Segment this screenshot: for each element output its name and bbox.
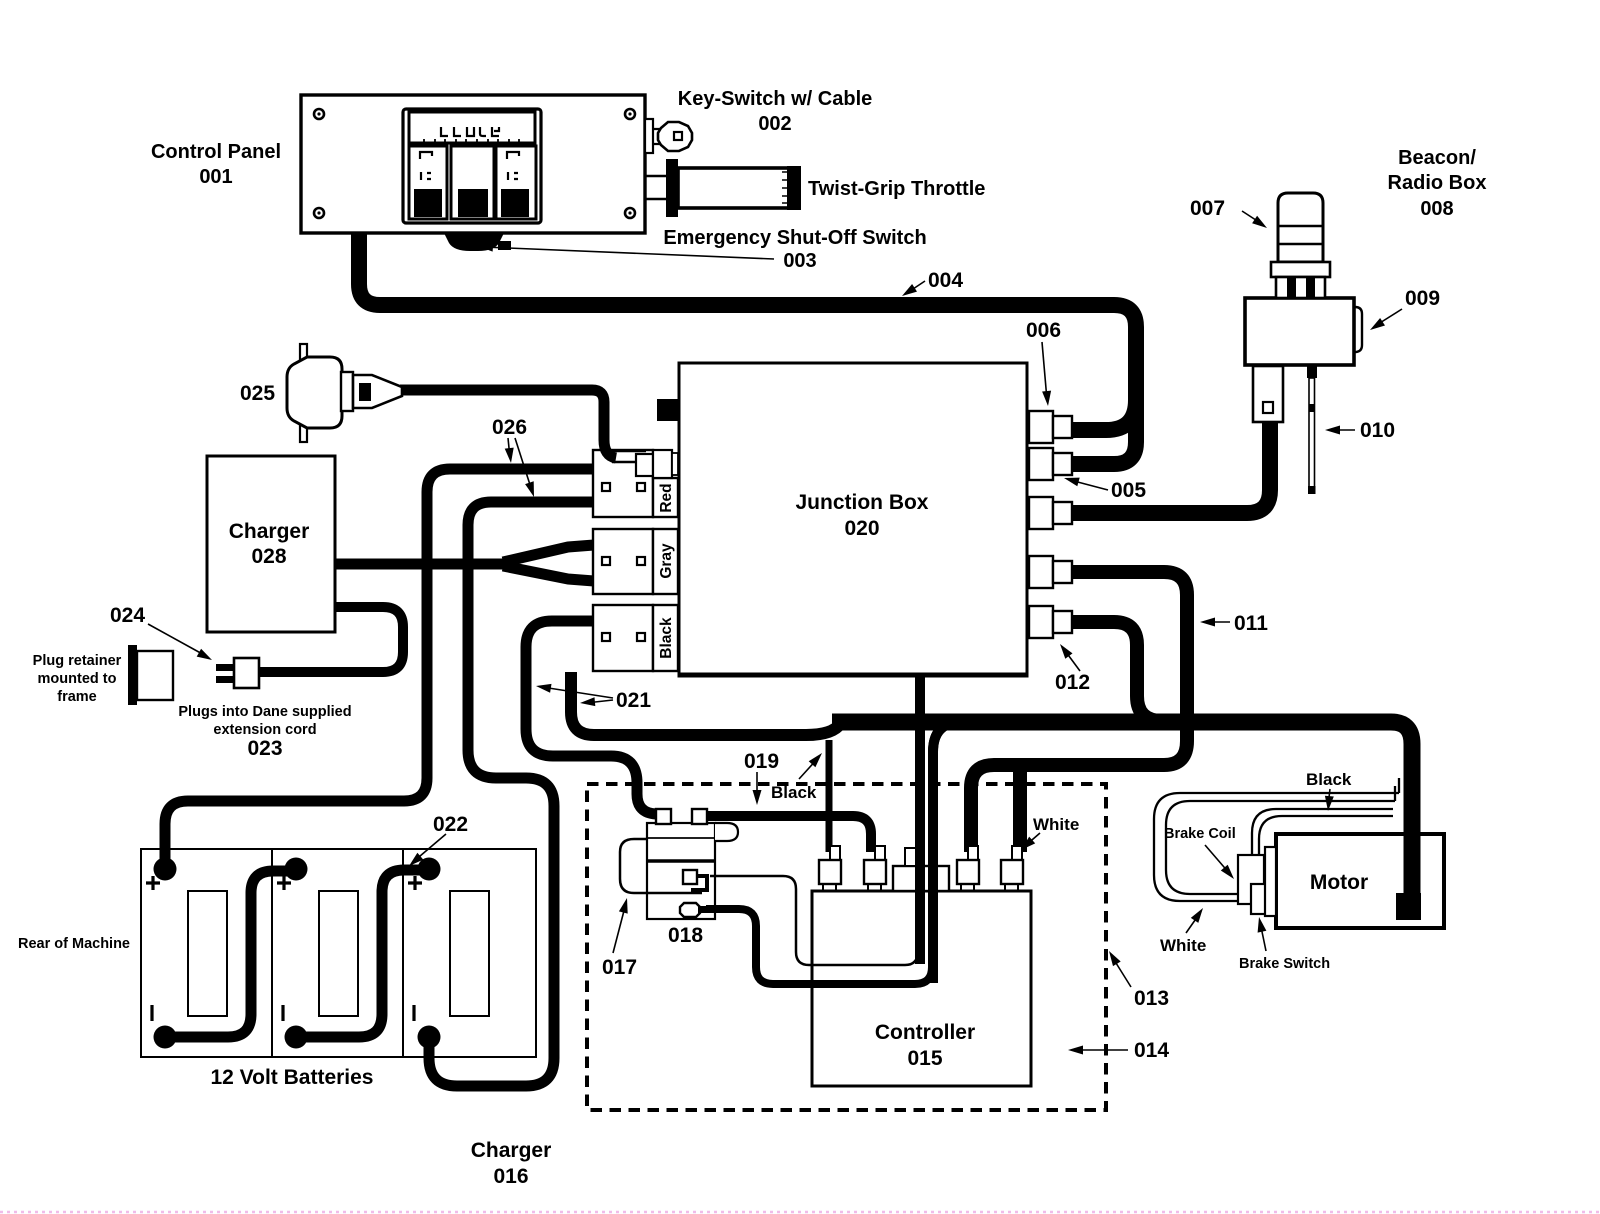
emergency shut-off switch 003 — [444, 233, 504, 251]
relay 018 top terminals — [656, 809, 671, 824]
thin wires to brake coil — [1252, 809, 1393, 856]
battery minus symbols — [150, 1005, 153, 1021]
dashed enclosure box 013/014 — [587, 784, 1106, 1110]
wire branch to controller terminal T5 (White) — [1013, 765, 1027, 852]
svg-text:021: 021 — [616, 689, 651, 712]
svg-text:Plug retainer: Plug retainer — [33, 653, 122, 669]
svg-text:Junction Box: Junction Box — [795, 491, 928, 514]
svg-text:025: 025 — [240, 382, 275, 405]
gray connector block — [593, 529, 678, 594]
controller terminal T3 (main) — [893, 866, 949, 891]
battery terminal dots — [154, 858, 177, 881]
svg-text:028: 028 — [251, 545, 286, 568]
svg-text:frame: frame — [57, 689, 97, 705]
wire 026 (a): red block to battery 1 positive — [165, 469, 593, 876]
svg-text:Control Panel: Control Panel — [151, 141, 281, 163]
svg-text:022: 022 — [433, 813, 468, 836]
junction box right connectors 1-5 — [1029, 411, 1072, 443]
relay lower terminal — [680, 903, 707, 917]
brake switch — [1251, 884, 1266, 914]
svg-text:Brake Switch: Brake Switch — [1239, 956, 1330, 972]
connector 025 — [287, 344, 402, 442]
red connector block — [593, 450, 678, 517]
svg-text:mounted to: mounted to — [38, 671, 117, 687]
svg-text:024: 024 — [110, 604, 145, 627]
svg-text:001: 001 — [199, 166, 232, 188]
wire 019: relay to controller terminal T2 — [705, 816, 871, 852]
plug 024 — [216, 658, 259, 688]
key-switch 002 — [645, 119, 692, 153]
svg-text:008: 008 — [1420, 198, 1453, 220]
svg-text:017: 017 — [602, 956, 637, 979]
black connector block — [593, 605, 678, 671]
svg-text:007: 007 — [1190, 197, 1225, 220]
svg-text:003: 003 — [783, 250, 816, 272]
svg-text:004: 004 — [928, 269, 963, 292]
svg-text:023: 023 — [247, 737, 282, 760]
wire 012: junction box connector 5 to motor bus — [1060, 622, 1162, 721]
svg-text:White: White — [1160, 936, 1206, 955]
wire: motor bus branch down to controller terminal T3 — [933, 722, 962, 983]
control panel inner bezel — [403, 109, 541, 223]
wire 026 (b): red block to battery 3 negative (charger 016 circuit) — [429, 502, 593, 1086]
antenna 010 — [1307, 366, 1317, 494]
relay coil terminal + hook — [683, 870, 707, 890]
svg-text:009: 009 — [1405, 287, 1440, 310]
battery plus symbols — [146, 876, 160, 890]
controller 015 box — [812, 891, 1031, 1086]
control panel 001 — [301, 95, 645, 233]
svg-text:020: 020 — [844, 517, 879, 540]
svg-text:011: 011 — [1234, 612, 1268, 635]
svg-text:019: 019 — [744, 750, 779, 773]
svg-text:Controller: Controller — [875, 1021, 975, 1044]
battery gauge display — [409, 112, 535, 143]
svg-text:006: 006 — [1026, 319, 1061, 342]
wire: relay lower terminal to controller T3 — [706, 909, 932, 984]
svg-text:010: 010 — [1360, 419, 1395, 442]
battery jumper wire 022: battery2 neg to battery3 pos — [296, 870, 429, 1037]
beacon lower connector — [1253, 366, 1283, 422]
wire 004: control panel to junction box connectors 006/005 — [359, 233, 1136, 464]
wire Black 019 drop to controller terminal T1 — [826, 740, 833, 852]
plug retainer — [128, 645, 173, 705]
svg-text:018: 018 — [668, 924, 703, 947]
svg-text:Beacon/: Beacon/ — [1398, 147, 1476, 169]
bottom pink dotted line — [0, 1211, 1600, 1214]
beacon/radio box 008 — [1245, 298, 1362, 365]
svg-text:Black: Black — [658, 617, 675, 659]
beacon light 007 — [1271, 193, 1330, 298]
thin motor wires Black/White loop — [1154, 778, 1399, 901]
wire 021 (b): black block bottom to motor bus — [571, 672, 841, 735]
charger 028 box — [207, 456, 335, 632]
svg-text:12 Volt Batteries: 12 Volt Batteries — [210, 1066, 373, 1089]
svg-text:013: 013 — [1134, 987, 1169, 1010]
svg-text:Rear of Machine: Rear of Machine — [18, 936, 130, 952]
svg-text:015: 015 — [907, 1047, 942, 1070]
thin wire: relay coil terminal to controller T3 — [710, 876, 918, 965]
wire: junction box bottom to controller terminal T3 — [915, 676, 925, 964]
brake coil — [1238, 855, 1264, 904]
wire: connector 025 to red block connector — [400, 390, 616, 458]
wire 011: junction box connector 4 down to controller terminals — [971, 572, 1187, 852]
junction box 020 — [657, 363, 1027, 676]
battery box: 3 x 12 volt batteries — [141, 849, 536, 1057]
svg-text:Charger: Charger — [229, 520, 310, 543]
svg-text:White: White — [1033, 815, 1079, 834]
red block upper connector pair — [636, 450, 678, 478]
svg-text:Motor: Motor — [1310, 871, 1368, 894]
thin hook wire 017 on left of relay — [620, 839, 702, 893]
svg-text:002: 002 — [758, 113, 791, 135]
svg-text:005: 005 — [1111, 479, 1146, 502]
motor box — [1276, 834, 1444, 928]
svg-text:016: 016 — [493, 1165, 528, 1188]
svg-text:Emergency Shut-Off Switch: Emergency Shut-Off Switch — [663, 227, 926, 249]
svg-text:Radio Box: Radio Box — [1388, 172, 1487, 194]
svg-text:Twist-Grip Throttle: Twist-Grip Throttle — [808, 178, 985, 200]
battery jumper wire 022: battery1 neg to battery2 pos — [165, 871, 296, 1037]
svg-text:extension cord: extension cord — [213, 722, 316, 738]
svg-text:Black: Black — [1306, 770, 1352, 789]
rocker switches — [409, 146, 447, 219]
svg-text:014: 014 — [1134, 1039, 1169, 1062]
svg-text:026: 026 — [492, 416, 527, 439]
svg-text:012: 012 — [1055, 671, 1090, 694]
svg-text:Red: Red — [658, 483, 675, 512]
wire: charger 028 output to gray block (forked) — [335, 559, 509, 570]
svg-text:Charger: Charger — [471, 1139, 552, 1162]
motor flange — [1265, 847, 1276, 916]
wire: charger to plug 024 — [259, 607, 403, 672]
svg-text:Black: Black — [771, 783, 817, 802]
wire 021 (a): black block to relay terminal — [526, 621, 656, 814]
svg-text:Key-Switch w/ Cable: Key-Switch w/ Cable — [678, 88, 873, 110]
svg-text:Plugs into Dane supplied: Plugs into Dane supplied — [178, 704, 351, 720]
wire: junction box connector 3 to beacon connector — [1060, 420, 1270, 513]
svg-text:Gray: Gray — [658, 543, 675, 579]
wire branch into connector 006 — [1060, 400, 1136, 430]
relay/solenoid 018 box — [647, 823, 738, 919]
twist-grip throttle — [646, 159, 801, 217]
svg-text:Brake Coil: Brake Coil — [1164, 826, 1236, 842]
wire: motor supply bus to motor — [832, 722, 1412, 897]
controller terminals — [819, 846, 841, 891]
